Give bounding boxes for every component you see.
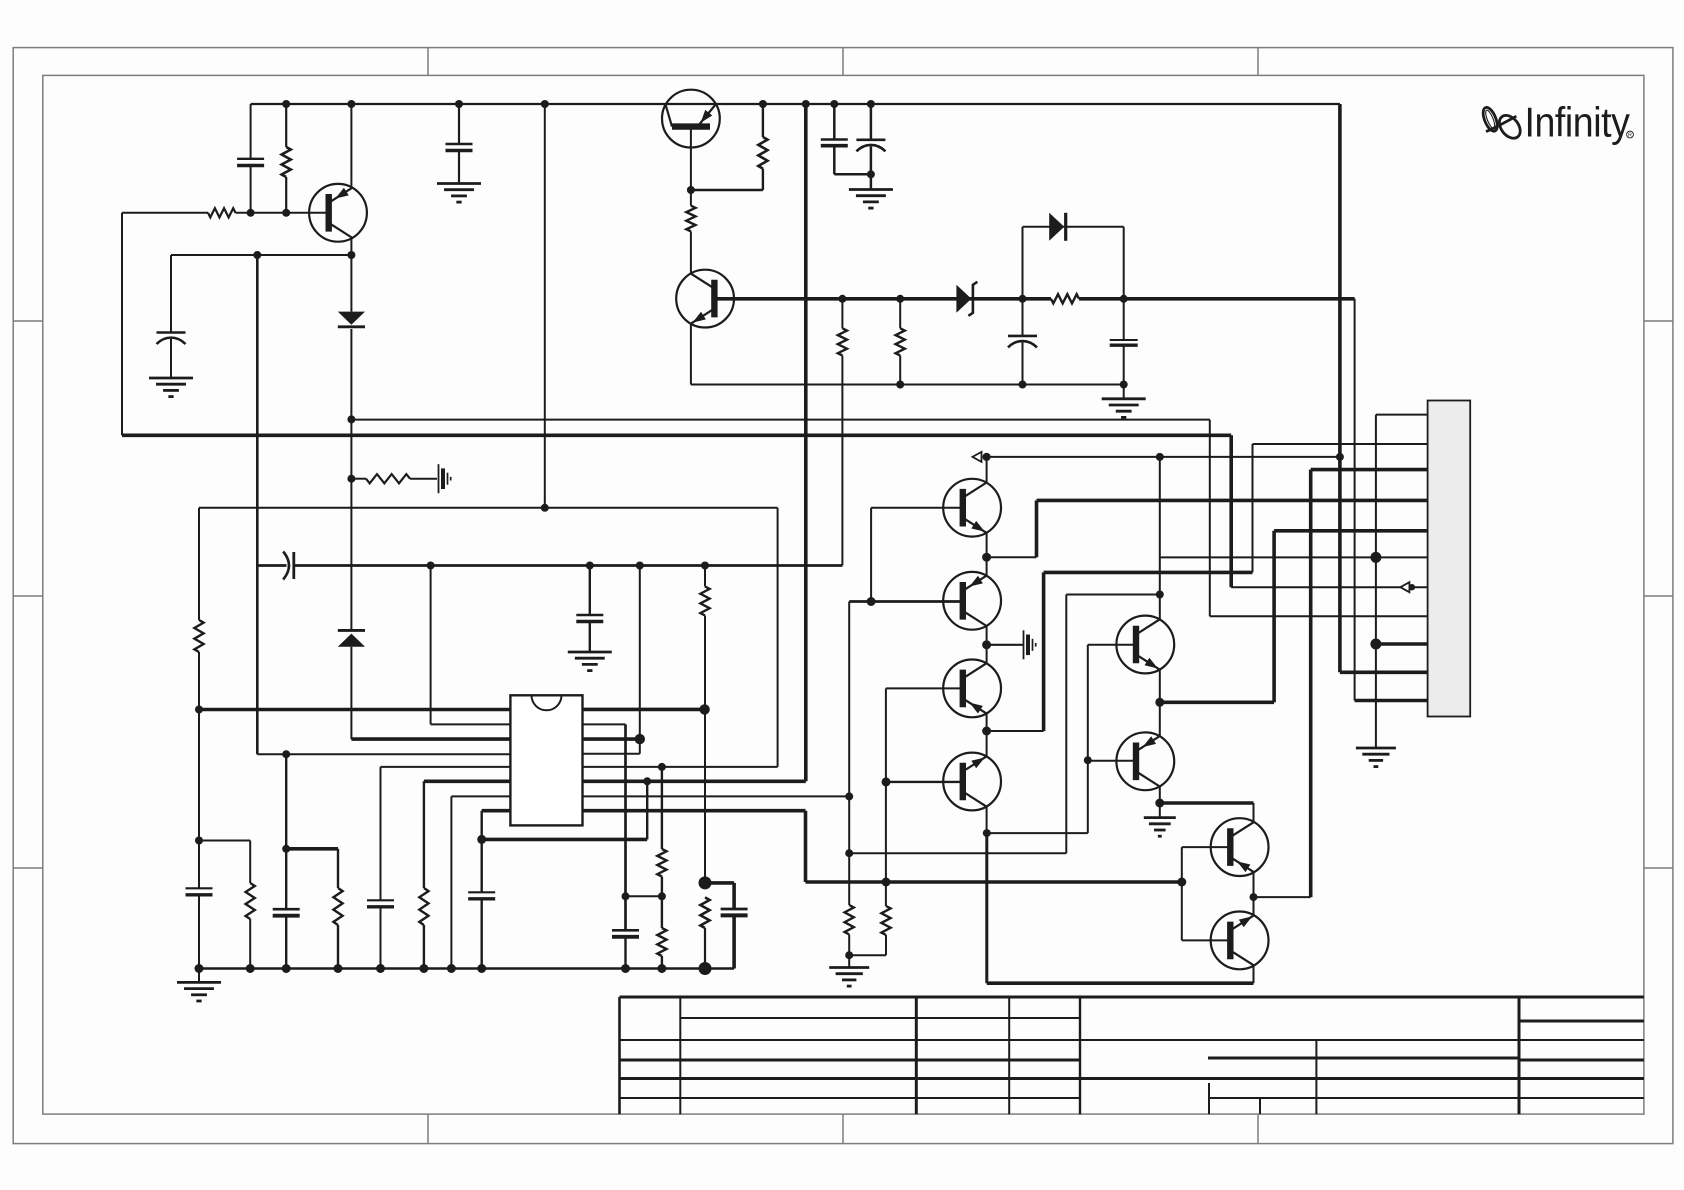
resistor R14 bbox=[762, 104, 764, 137]
wire Q3 emitter down bbox=[690, 324, 692, 385]
wire U1 pin8 right bbox=[583, 809, 806, 813]
wire U1 pin1 left bbox=[199, 708, 510, 712]
wire Q9 emitter to Q10 bbox=[1160, 801, 1254, 805]
resistor R10 bbox=[337, 849, 339, 888]
wire U1 pin6 right / supply to pin6 bbox=[583, 779, 806, 783]
capacitor C12 bbox=[481, 839, 483, 891]
capacitor C2 bbox=[170, 255, 172, 333]
wire U1 pin1 right bbox=[583, 708, 705, 712]
wire Q6 emitter node bbox=[986, 714, 988, 756]
wire base column bbox=[1181, 847, 1183, 940]
capacitor C10 bbox=[285, 849, 287, 909]
wire mid bus y565 bbox=[257, 564, 286, 567]
wire U1 pin6 left bbox=[424, 779, 511, 783]
IC U1 bbox=[510, 695, 582, 825]
wire branch to R5 bbox=[199, 840, 250, 842]
wire U1 pin3 right chain bbox=[639, 566, 641, 740]
title block outline bbox=[620, 996, 1644, 999]
wire long supply vertical bbox=[804, 104, 808, 781]
transistor Q3 (mirrored) bbox=[676, 270, 734, 328]
resistor R12 bbox=[661, 767, 663, 849]
wire output node to pin3 chain bbox=[1254, 896, 1311, 898]
wire to C9 bbox=[705, 881, 734, 885]
wire to off-page arrow pin7 bbox=[1231, 586, 1400, 588]
transistor Q10 bbox=[1211, 818, 1269, 876]
resistor R5 bbox=[249, 841, 251, 884]
zener diode ZD1 bbox=[956, 285, 971, 313]
wire arrow net y457 bbox=[987, 456, 1340, 458]
wire U1 pin4 left bbox=[257, 753, 510, 755]
resistor R4 bbox=[198, 508, 200, 620]
wire Q10 emitter node bbox=[1253, 873, 1255, 898]
wire to connector pin11 bbox=[1354, 299, 1356, 701]
transistor Q1 bbox=[309, 184, 367, 242]
capacitor C1 bbox=[250, 104, 252, 158]
wire top supply bus bbox=[251, 103, 1340, 105]
wire node row B bbox=[171, 254, 351, 256]
capacitor C5 bbox=[458, 104, 460, 144]
chassis ground G10 bbox=[987, 644, 1023, 646]
wire Q3 base rail y298 (thick) bbox=[714, 297, 1051, 301]
wire pin1 / ground column at connector bbox=[1376, 414, 1428, 416]
capacitor C13 bbox=[624, 896, 627, 930]
transistor Q11 bbox=[1211, 912, 1269, 970]
wire Q8 collector chain bbox=[1159, 457, 1161, 619]
border zone ticks right bbox=[1644, 320, 1673, 322]
wire Q7 base bbox=[886, 781, 963, 783]
wire pin4 chain bbox=[987, 556, 1037, 558]
wire Q1 emitter bbox=[350, 238, 352, 255]
wire driver feed bbox=[806, 880, 1182, 884]
wire emitter rail y384 bbox=[691, 384, 1124, 386]
transistor Q9 bbox=[1116, 732, 1174, 790]
wire Q11 collector bottom bbox=[1253, 966, 1255, 983]
wire bus drop to connector pin10 bbox=[1338, 104, 1342, 672]
ground bus bottom bbox=[199, 967, 734, 969]
title block columns bbox=[679, 997, 681, 1114]
wire mid rail y507 bbox=[199, 507, 778, 509]
wire bias branch bbox=[285, 754, 287, 849]
ground under C2 bbox=[149, 377, 193, 380]
wire Q4 base chain bbox=[871, 507, 963, 509]
title block small ticks bbox=[1208, 1083, 1210, 1114]
off-page arrow node VCC bbox=[973, 452, 982, 462]
transistor Q8 bbox=[1116, 616, 1174, 674]
border zone ticks left bbox=[13, 320, 43, 322]
capacitor C14 polarized bbox=[1022, 299, 1024, 336]
wire Q1 collector bbox=[350, 104, 352, 187]
diode D1 bbox=[350, 255, 352, 312]
title block rows bbox=[680, 1017, 1080, 1019]
capacitor C7 coupling bbox=[283, 552, 289, 580]
capacitor C6 bbox=[198, 710, 200, 888]
wire Q5 emitter node bbox=[986, 626, 988, 663]
capacitor C11 bbox=[380, 767, 382, 900]
wire U1 pin7 right bbox=[583, 795, 850, 797]
capacitor C8 bbox=[589, 566, 591, 615]
diode D2 bbox=[350, 479, 352, 631]
diode D3 bbox=[1049, 213, 1064, 241]
diode D3 branch bbox=[1022, 227, 1024, 299]
ground under R18 bbox=[848, 955, 850, 967]
connector J1 bbox=[1428, 401, 1471, 717]
svg-text:R: R bbox=[1628, 133, 1632, 139]
wire Q7 collector down bbox=[986, 807, 988, 833]
ground under Q9 emitter bbox=[1159, 803, 1161, 818]
chassis ground G9 bbox=[438, 464, 440, 493]
ground under C15 bbox=[1102, 397, 1146, 400]
wire Q1 base row bbox=[122, 212, 208, 214]
resistor R13 bbox=[661, 896, 663, 928]
wire bottom link bbox=[482, 838, 648, 842]
ground under C5 bbox=[437, 182, 481, 185]
capacitor C15 bbox=[1123, 299, 1125, 340]
capacitor C9 bbox=[721, 908, 748, 911]
resistor R17 bbox=[881, 906, 890, 935]
transistor Q4 bbox=[943, 479, 1001, 537]
capacitor C4 polarized bbox=[870, 104, 873, 139]
border zone ticks bottom bbox=[427, 1114, 429, 1144]
wire Q9 base bbox=[1088, 760, 1136, 762]
wire pin6 row bbox=[1160, 556, 1428, 558]
wire Q4 emitter node bbox=[986, 533, 988, 575]
capacitor C3 bbox=[833, 104, 836, 139]
wire to U1 pin3 left bbox=[351, 737, 510, 741]
resistor R6 bbox=[841, 299, 843, 329]
wire Q8 base bbox=[1088, 644, 1136, 646]
resistor R1 bbox=[285, 104, 287, 147]
wire Q2 base lead bbox=[690, 127, 692, 190]
wire U1 pin5 left bbox=[381, 766, 511, 768]
border zone ticks top bbox=[427, 48, 429, 76]
off-page arrow pin7 bbox=[1400, 582, 1409, 592]
wire Q11 emitter top bbox=[1253, 897, 1255, 915]
transistor Q5 bbox=[943, 572, 1001, 630]
ground under C8 bbox=[568, 651, 612, 654]
transistor Q2 top (rotated) bbox=[662, 90, 720, 148]
wire output rail from Q7 bbox=[985, 833, 988, 983]
ground under C4 bbox=[849, 188, 893, 191]
registered trademark symbol bbox=[1627, 131, 1634, 138]
wire Q11 base bbox=[1182, 939, 1231, 941]
resistor R11 bbox=[423, 781, 425, 888]
wire Q5 emitter to pin5 chain bbox=[1160, 700, 1274, 704]
wire net to pin8 of connector bbox=[351, 419, 1209, 421]
wire Q4 collector bbox=[986, 457, 988, 483]
wire U1 pin2 left chain bbox=[430, 566, 432, 725]
wire Q5 base row bbox=[849, 600, 963, 603]
svg-text:Infinity: Infinity bbox=[1525, 100, 1631, 146]
wire U1 pin2 right chain bbox=[583, 723, 626, 725]
resistor R15 bbox=[686, 206, 695, 232]
resistor R18 bbox=[845, 905, 854, 935]
resistor R7 bbox=[899, 299, 901, 329]
resistor R3 with chassis ground bbox=[350, 419, 352, 478]
wire Q8 link to C16 chain bbox=[987, 832, 1088, 834]
wire U1 pin4 right loop bbox=[639, 739, 641, 754]
transistor Q6 bbox=[943, 660, 1001, 718]
resistor R8 bbox=[704, 566, 706, 587]
Infinity logo mark bbox=[1480, 106, 1524, 143]
wire pin9 bbox=[1376, 642, 1428, 646]
wire U1 pin7 left bbox=[451, 795, 510, 797]
wire link bbox=[626, 895, 662, 897]
resistor R9 bbox=[700, 897, 709, 928]
wire Q5Q6 base ladder bbox=[886, 687, 963, 689]
wire U1 pin5 right bbox=[583, 766, 778, 768]
wire feedback bus y435 bbox=[122, 433, 1231, 437]
wire bias vertical bbox=[256, 255, 259, 754]
wire Q10 base bbox=[1182, 846, 1231, 848]
ground symbol main bbox=[198, 969, 200, 983]
wire y853 link bbox=[849, 852, 1066, 854]
wire pin2 chain bbox=[987, 730, 1044, 732]
wire U1 pin8 left bbox=[482, 809, 511, 813]
resistor R16 bbox=[1051, 294, 1079, 303]
junction dots bbox=[282, 100, 290, 108]
wire Q8 emitter node bbox=[1159, 670, 1161, 736]
IC U1 notch bbox=[532, 695, 562, 710]
transistor Q7 bbox=[943, 753, 1001, 811]
wire Q9 emitter to ground node bbox=[1159, 787, 1161, 804]
wire node A vertical bbox=[544, 104, 546, 508]
wire left feedback vertical bbox=[121, 213, 123, 435]
wire Q2 base link bbox=[691, 189, 763, 191]
ground under connector column bbox=[1356, 747, 1396, 750]
resistor R2 bbox=[208, 208, 236, 217]
